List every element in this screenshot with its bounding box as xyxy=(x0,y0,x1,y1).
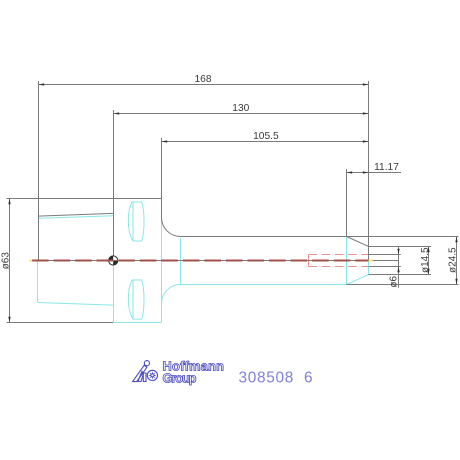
Hoffmann Group logo text xyxy=(163,358,225,385)
nose face / right extension line xyxy=(368,81,370,261)
drive groove top xyxy=(128,202,144,241)
dim dia6 line xyxy=(398,246,400,287)
flange left face / 130 extension line xyxy=(113,110,115,261)
cyan body left face xyxy=(37,261,39,303)
dim dia63 line xyxy=(9,199,11,323)
dia6 extension bottom xyxy=(369,266,401,268)
cyan nose taper bottom xyxy=(347,275,369,285)
shaft top / dia24.5 extension xyxy=(181,236,459,238)
dia14.5 extension bottom xyxy=(369,274,432,276)
clamp range dashed rect left xyxy=(308,255,310,267)
cyan fillet arc bottom xyxy=(162,285,181,304)
body left face / 168 extension line xyxy=(38,81,40,261)
dia14.5 extension top xyxy=(369,246,432,248)
nose taper top xyxy=(347,237,369,247)
dia63 bottom extension xyxy=(7,322,114,324)
center line yellow tick left xyxy=(29,260,32,262)
svg-text:11.17: 11.17 xyxy=(374,162,399,173)
logo gear star xyxy=(148,371,156,379)
svg-text:ø6: ø6 xyxy=(388,276,399,288)
clamp-taper start extension (11.17) xyxy=(346,169,348,237)
svg-text:308508 6: 308508 6 xyxy=(239,369,314,386)
svg-text:168: 168 xyxy=(195,74,212,85)
dim dia24.5 line xyxy=(456,237,458,285)
svg-text:ø14.5: ø14.5 xyxy=(420,247,431,273)
dim 130 line xyxy=(114,113,369,115)
svg-text:130: 130 xyxy=(232,103,249,114)
center line yellow tick right xyxy=(369,260,373,262)
center line (red dashes) xyxy=(32,260,369,262)
svg-text:ø24.5: ø24.5 xyxy=(447,247,458,273)
dim 11.17 line xyxy=(347,172,402,174)
dim dia14.5 line xyxy=(428,247,430,275)
cyan flange left face xyxy=(113,261,115,323)
svg-text:Group: Group xyxy=(163,370,197,385)
clamp range dashed rect bottom xyxy=(309,266,369,268)
dia24.5 bottom extension xyxy=(347,284,459,286)
cyan clamp-taper start edge xyxy=(346,237,348,285)
center line (thin solid) xyxy=(32,260,399,262)
cyan nose face bottom half xyxy=(368,261,370,275)
cyan neck edge xyxy=(180,238,182,284)
fillet arc top xyxy=(162,218,181,237)
flange top / dia63 extension xyxy=(7,198,162,200)
svg-text:ø63: ø63 xyxy=(0,252,11,270)
cyan shaft bottom xyxy=(181,284,347,286)
center of gravity marker xyxy=(109,256,118,265)
cyan flange bottom xyxy=(113,322,162,324)
Hoffmann Group logo icon xyxy=(133,361,158,382)
dia6 extension top xyxy=(369,254,401,256)
drive groove bottom xyxy=(128,280,144,319)
flange right face / 105.5 extension xyxy=(161,138,163,218)
clamp range dashed rect top xyxy=(309,254,369,256)
taper top xyxy=(39,213,114,216)
dim 105.5 line xyxy=(162,141,369,143)
cyan taper top xyxy=(38,216,113,219)
cyan taper bottom xyxy=(38,303,114,306)
svg-text:105.5: 105.5 xyxy=(253,131,279,142)
cyan flange right face xyxy=(161,199,163,323)
dim 168 line xyxy=(39,84,369,86)
